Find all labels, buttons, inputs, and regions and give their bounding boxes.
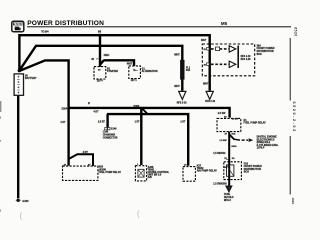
svg-text:1370.4: 1370.4 [257, 147, 265, 150]
svg-text:FUSE: FUSE [224, 194, 231, 196]
svg-text:A/B: A/B [148, 176, 152, 179]
svg-text:2.5 RT: 2.5 RT [98, 122, 105, 124]
svg-text:12V 4: 12V 4 [97, 80, 104, 83]
svg-text:WHT: WHT [127, 62, 133, 65]
svg-text:DETAILS: DETAILS [224, 196, 234, 199]
svg-text:FUEL PUMP RELAY: FUEL PUMP RELAY [99, 171, 122, 174]
svg-text:1.5 SW: 1.5 SW [219, 140, 227, 142]
svg-text:S204: S204 [61, 107, 67, 110]
svg-text:6520-2-02: 6520-2-02 [292, 102, 296, 133]
svg-text:4 RT: 4 RT [60, 121, 66, 124]
svg-text:2 RT: 2 RT [180, 122, 186, 124]
svg-text:30A: 30A [186, 69, 191, 72]
svg-text:1991: 1991 [291, 198, 295, 205]
svg-text:30A: 30A [231, 133, 235, 136]
svg-text:BOX: BOX [257, 53, 263, 56]
svg-text:STARTER: STARTER [107, 70, 118, 73]
svg-text:2.5 SW: 2.5 SW [218, 113, 226, 115]
svg-text:C146: C146 [103, 131, 109, 134]
svg-text:6520: 6520 [294, 27, 298, 37]
svg-text:RFS 2-10: RFS 2-10 [205, 101, 216, 103]
svg-text:M5: M5 [221, 21, 228, 26]
svg-text:S300: S300 [133, 105, 139, 108]
svg-text:RFS 2-10: RFS 2-10 [241, 56, 252, 58]
svg-text:AIR PUMP RELAY: AIR PUMP RELAY [197, 170, 218, 173]
svg-text:WHT: WHT [174, 53, 180, 56]
svg-text:86 SW: 86 SW [232, 118, 239, 120]
svg-text:WHT: WHT [201, 39, 207, 42]
svg-text:4 RT: 4 RT [83, 151, 89, 154]
svg-text:1.5 SW/GRN: 1.5 SW/GRN [213, 184, 227, 186]
svg-text:POWER DISTRIBUTION: POWER DISTRIBUTION [27, 20, 104, 27]
svg-text:RFS 2-10: RFS 2-10 [177, 103, 188, 105]
svg-text:TO B4: TO B4 [41, 30, 49, 33]
svg-text:ALTERNATOR: ALTERNATOR [142, 70, 158, 73]
svg-text:12V 1: 12V 1 [131, 80, 138, 82]
svg-text:RED: RED [104, 53, 110, 57]
svg-text:WHT: WHT [174, 85, 180, 88]
svg-text:S146: S146 [111, 128, 117, 131]
svg-text:1.5 SW/VIO: 1.5 SW/VIO [213, 153, 225, 155]
svg-text:S606: S606 [231, 146, 237, 148]
svg-text:WHT: WHT [203, 83, 209, 86]
svg-text:FUEL PUMP RELAY: FUEL PUMP RELAY [244, 122, 267, 125]
svg-text:1 RT: 1 RT [135, 121, 141, 123]
svg-text:MFS-5: MFS-5 [224, 200, 232, 202]
svg-text:G100: G100 [22, 200, 29, 203]
svg-text:4 RT: 4 RT [94, 110, 100, 113]
svg-text:BATTERY: BATTERY [25, 77, 37, 80]
svg-text:CHAMONIX: CHAMONIX [103, 133, 116, 136]
svg-text:CONNECTOR: CONNECTOR [103, 137, 118, 139]
svg-text:BOX: BOX [244, 171, 250, 174]
svg-text:RFS 2-28: RFS 2-28 [241, 59, 252, 61]
